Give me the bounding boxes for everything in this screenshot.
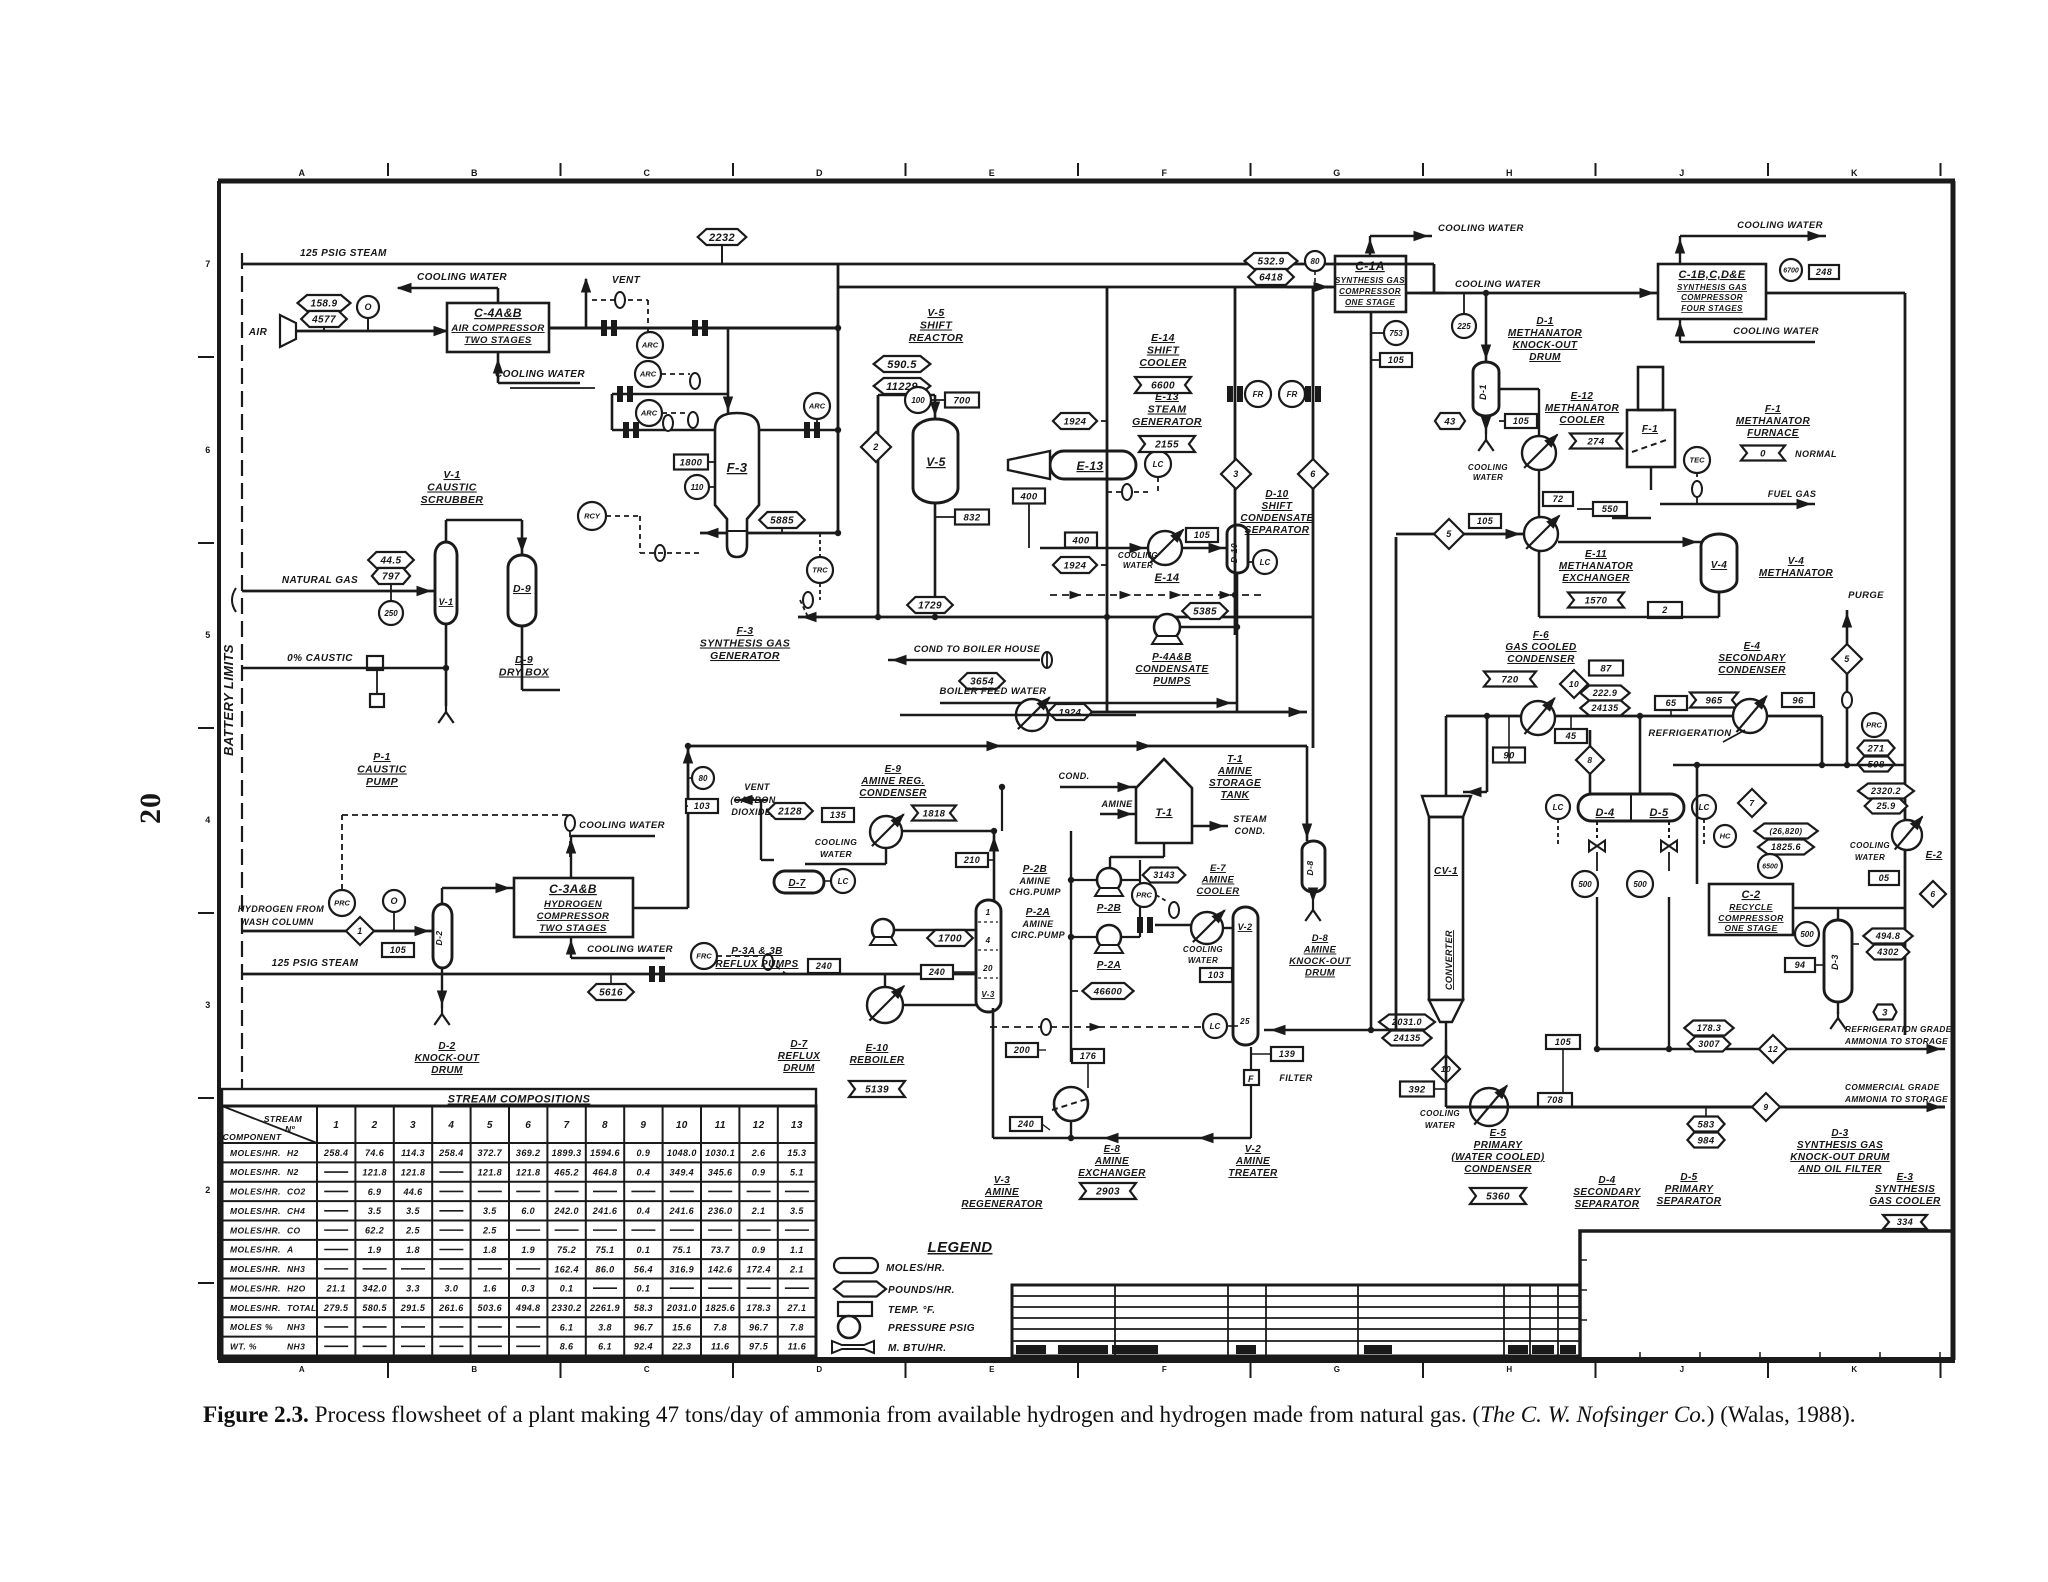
svg-text:550: 550: [1602, 504, 1618, 514]
svg-text:TRC: TRC: [812, 566, 828, 575]
knockout drum D-8: [1302, 841, 1325, 892]
svg-text:797: 797: [382, 572, 400, 583]
instrument FR b: [1279, 381, 1305, 407]
svg-text:STREAM: STREAM: [264, 1114, 303, 1124]
exchanger E-5: [1470, 1088, 1508, 1126]
svg-text:345.6: 345.6: [708, 1167, 733, 1177]
svg-text:P-2A: P-2A: [1097, 960, 1121, 971]
svg-text:4: 4: [447, 1120, 454, 1131]
svg-text:1818: 1818: [923, 808, 946, 819]
svg-text:1924: 1924: [1064, 416, 1087, 427]
scrubber V-1: [435, 542, 457, 624]
svg-text:45: 45: [1565, 731, 1577, 741]
control valve purge: [1842, 692, 1852, 708]
svg-text:F-1: F-1: [1642, 424, 1658, 435]
wire T-1 cond feed: [1060, 786, 1136, 788]
svg-text:COOLING: COOLING: [1118, 551, 1158, 560]
svg-text:(WATER COOLED): (WATER COOLED): [1451, 1152, 1544, 1163]
svg-text:0.9: 0.9: [752, 1167, 766, 1177]
svg-text:NORMAL: NORMAL: [1795, 449, 1837, 459]
controller ARC 2: [635, 361, 661, 387]
svg-text:4302: 4302: [1876, 947, 1899, 957]
svg-text:3.3: 3.3: [406, 1284, 420, 1294]
svg-text:3: 3: [205, 1000, 210, 1010]
compressor C-4A&B: [447, 303, 549, 352]
svg-text:5: 5: [1446, 529, 1452, 539]
svg-text:COMPRESSOR: COMPRESSOR: [1339, 287, 1401, 296]
svg-text:11.6: 11.6: [788, 1342, 807, 1352]
svg-text:STORAGE: STORAGE: [1209, 778, 1261, 789]
svg-text:1.1: 1.1: [790, 1245, 804, 1255]
reflux pump: [872, 919, 894, 941]
flag 583 984: [1687, 1117, 1724, 1132]
wire E-9 loop: [760, 800, 762, 860]
pump P-2B: [1097, 868, 1121, 892]
svg-text:REFRIGERATION GRADE: REFRIGERATION GRADE: [1845, 1025, 1952, 1034]
wire D-10 bottom: [1236, 573, 1239, 712]
flag 2031.0: [1379, 1015, 1435, 1030]
instrument 225: [1452, 314, 1476, 338]
svg-text:MOLES/HR.: MOLES/HR.: [230, 1167, 281, 1177]
svg-text:105: 105: [1555, 1037, 1572, 1047]
svg-text:REFLUX: REFLUX: [778, 1051, 821, 1062]
svg-text:21.1: 21.1: [326, 1284, 346, 1294]
border frame: [218, 179, 1955, 184]
svg-text:SEPARATOR: SEPARATOR: [1575, 1199, 1640, 1210]
svg-text:E-12: E-12: [1571, 391, 1594, 402]
svg-text:62.2: 62.2: [365, 1226, 384, 1236]
svg-text:3: 3: [1233, 469, 1238, 479]
svg-text:WT. %: WT. %: [230, 1342, 257, 1352]
svg-text:158.9: 158.9: [310, 299, 337, 310]
svg-text:STREAM COMPOSITIONS: STREAM COMPOSITIONS: [448, 1094, 591, 1106]
svg-text:D-1: D-1: [1478, 384, 1488, 400]
svg-text:REACTOR: REACTOR: [909, 332, 964, 344]
ammonia product line: [1446, 1106, 1945, 1109]
exchanger E-11 methanator: [1524, 517, 1558, 551]
flag 271 508: [1857, 741, 1894, 756]
svg-text:PURGE: PURGE: [1848, 590, 1884, 601]
svg-text:D-7: D-7: [788, 878, 805, 889]
flag 72: [1543, 492, 1573, 506]
svg-text:SYNTHESIS GAS: SYNTHESIS GAS: [1677, 283, 1747, 292]
svg-text:369.2: 369.2: [516, 1148, 541, 1158]
svg-text:0.4: 0.4: [637, 1167, 651, 1177]
flag 87: [1589, 661, 1623, 676]
svg-text:K: K: [1851, 1365, 1857, 1374]
svg-text:0.4: 0.4: [637, 1206, 651, 1216]
svg-text:MOLES %: MOLES %: [230, 1322, 273, 1332]
loop verticals left: [1370, 312, 1372, 1030]
table header diagonal: [222, 1106, 317, 1143]
controller PRC hydrogen: [329, 890, 355, 916]
svg-text:2155: 2155: [1154, 440, 1179, 451]
svg-text:BATTERY LIMITS: BATTERY LIMITS: [221, 644, 236, 756]
svg-text:MOLES/HR.: MOLES/HR.: [230, 1206, 281, 1216]
treater V-2: [1233, 907, 1258, 1045]
svg-text:COOLING: COOLING: [815, 837, 857, 847]
svg-text:2.6: 2.6: [751, 1148, 766, 1158]
svg-text:P-2A: P-2A: [1026, 907, 1050, 918]
svg-text:COOLING: COOLING: [1183, 945, 1223, 954]
flag 200: [1006, 1043, 1038, 1057]
svg-text:NH3: NH3: [287, 1322, 305, 1332]
svg-text:VENT: VENT: [612, 275, 641, 286]
svg-text:METHANATOR: METHANATOR: [1559, 561, 1634, 572]
svg-text:103: 103: [694, 801, 710, 811]
instrument TEC: [1684, 447, 1710, 473]
svg-text:1800: 1800: [680, 457, 703, 468]
svg-text:24135: 24135: [1392, 1033, 1421, 1043]
dashed condensate header: [1050, 594, 1265, 596]
table grid: [222, 1106, 816, 1356]
svg-text:REFRIGERATION: REFRIGERATION: [1648, 728, 1732, 739]
svg-text:SHIFT: SHIFT: [1262, 501, 1293, 512]
svg-text:SYNTHESIS GAS: SYNTHESIS GAS: [1797, 1140, 1883, 1151]
compressor C-1A: [1335, 256, 1406, 312]
controller ARC 1: [637, 332, 663, 358]
condensate pump P-4A&B: [1154, 614, 1180, 640]
instrument 6700: [1780, 259, 1802, 281]
exchanger E-7: [1191, 912, 1223, 944]
svg-text:SCRUBBER: SCRUBBER: [421, 494, 484, 506]
wire recycle loop: [1696, 765, 1699, 884]
svg-text:WATER: WATER: [1123, 561, 1153, 570]
svg-text:1924: 1924: [1064, 560, 1087, 571]
svg-text:KNOCK-OUT: KNOCK-OUT: [415, 1053, 480, 1064]
cooling water out top: [497, 288, 500, 303]
svg-text:6418: 6418: [1259, 273, 1283, 284]
svg-text:C-3A&B: C-3A&B: [549, 882, 597, 896]
svg-text:105: 105: [1194, 530, 1211, 540]
svg-text:580.5: 580.5: [362, 1303, 387, 1313]
svg-text:334: 334: [1897, 1217, 1913, 1227]
svg-text:MOLES/HR.: MOLES/HR.: [230, 1245, 281, 1255]
svg-text:EXCHANGER: EXCHANGER: [1562, 573, 1630, 584]
svg-text:NH3: NH3: [287, 1342, 305, 1352]
svg-text:162.4: 162.4: [554, 1264, 579, 1274]
svg-text:GENERATOR: GENERATOR: [1132, 416, 1202, 428]
flag 965: [1690, 693, 1738, 708]
svg-text:ARC: ARC: [641, 341, 659, 350]
exchanger E-8: [1054, 1087, 1088, 1121]
svg-text:274: 274: [1586, 436, 1604, 447]
svg-text:125 PSIG STEAM: 125 PSIG STEAM: [272, 958, 359, 969]
svg-text:0: 0: [1760, 448, 1766, 459]
svg-text:A: A: [299, 1365, 305, 1374]
steam drum E-13: [1050, 451, 1136, 479]
svg-text:DRUM: DRUM: [1305, 968, 1336, 979]
flag 90: [1493, 748, 1525, 763]
svg-text:2: 2: [205, 1185, 210, 1195]
svg-text:E-8: E-8: [1104, 1144, 1121, 1155]
controller FRC steam: [691, 943, 717, 969]
legend mbtu symbol: [832, 1341, 874, 1353]
svg-text:5: 5: [205, 630, 210, 640]
svg-text:80: 80: [699, 774, 708, 783]
svg-text:SYNTHESIS GAS: SYNTHESIS GAS: [1335, 276, 1405, 285]
svg-text:9: 9: [1763, 1102, 1768, 1112]
svg-text:261.6: 261.6: [438, 1303, 464, 1313]
svg-text:92.4: 92.4: [634, 1342, 653, 1352]
instrument LC V-2: [1203, 1014, 1227, 1038]
separator D-10: [1227, 525, 1248, 573]
legend moles/hr symbol: [834, 1258, 878, 1273]
svg-text:392: 392: [1408, 1084, 1425, 1095]
svg-text:3007: 3007: [1698, 1039, 1720, 1049]
svg-text:D: D: [816, 1365, 822, 1374]
svg-text:1700: 1700: [938, 934, 962, 945]
svg-text:D-4: D-4: [1596, 807, 1615, 819]
wire to E-14: [1040, 547, 1148, 550]
svg-text:250: 250: [383, 609, 398, 618]
wire E-14 to D-10: [1182, 547, 1227, 550]
svg-text:6700: 6700: [1783, 268, 1799, 275]
svg-text:D-4: D-4: [1598, 1175, 1615, 1186]
converter CV-1: [1422, 796, 1471, 817]
svg-text:AMINE: AMINE: [984, 1187, 1019, 1198]
svg-text:105: 105: [390, 945, 407, 955]
svg-text:T-1: T-1: [1227, 754, 1243, 765]
controller TRC F-3: [807, 557, 833, 583]
svg-text:SECONDARY: SECONDARY: [1573, 1187, 1641, 1198]
svg-text:D-8: D-8: [1312, 933, 1329, 944]
title strip dark entries: [1016, 1345, 1046, 1354]
svg-text:C: C: [644, 1365, 650, 1374]
instrument LC E-13: [1145, 451, 1171, 477]
svg-text:G: G: [1333, 168, 1340, 178]
svg-text:COND.: COND.: [1059, 771, 1090, 781]
svg-text:DRY BOX: DRY BOX: [499, 667, 550, 679]
flag 1818: [912, 806, 956, 821]
flag 590.5: [874, 356, 931, 372]
svg-text:500: 500: [1800, 930, 1814, 939]
svg-text:75.1: 75.1: [595, 1245, 614, 1255]
svg-text:CIRC.PUMP: CIRC.PUMP: [1011, 930, 1066, 940]
svg-text:15.6: 15.6: [672, 1322, 692, 1332]
svg-text:13: 13: [791, 1120, 803, 1131]
svg-text:1.8: 1.8: [406, 1245, 420, 1255]
svg-text:43: 43: [1443, 416, 1456, 427]
svg-text:CONDENSER: CONDENSER: [1507, 654, 1575, 665]
instrument 110: [685, 475, 709, 499]
svg-text:LEGEND: LEGEND: [928, 1239, 993, 1256]
svg-text:COOLING WATER: COOLING WATER: [1438, 223, 1524, 234]
svg-text:0.9: 0.9: [637, 1148, 651, 1158]
flag 103 a: [686, 799, 718, 813]
instrument O: [357, 296, 379, 318]
svg-text:C-4A&B: C-4A&B: [474, 306, 522, 320]
svg-text:CONDENSATE: CONDENSATE: [1135, 664, 1208, 675]
flag 400 a: [1013, 489, 1045, 504]
svg-text:COMPRESSOR: COMPRESSOR: [1718, 913, 1784, 923]
svg-text:349.4: 349.4: [670, 1167, 695, 1177]
svg-text:2320.2: 2320.2: [1870, 786, 1901, 796]
svg-text:FUEL GAS: FUEL GAS: [1768, 489, 1817, 499]
svg-text:494.8: 494.8: [1875, 931, 1901, 941]
svg-text:464.8: 464.8: [592, 1167, 618, 1177]
svg-text:T-1: T-1: [1155, 807, 1172, 819]
svg-text:15.3: 15.3: [787, 1148, 806, 1158]
svg-text:210: 210: [963, 855, 980, 865]
svg-text:6.1: 6.1: [560, 1322, 574, 1332]
battery limits dashed line: [241, 253, 243, 665]
svg-text:F: F: [1248, 1074, 1254, 1084]
wire drops to separators: [1445, 716, 1448, 796]
svg-text:D-9: D-9: [513, 583, 531, 595]
svg-text:172.4: 172.4: [746, 1264, 771, 1274]
svg-text:PUMP: PUMP: [366, 776, 399, 788]
svg-text:CO2: CO2: [287, 1187, 306, 1197]
svg-text:(26,820): (26,820): [1770, 827, 1803, 836]
svg-text:V-4: V-4: [1788, 556, 1804, 567]
svg-text:J: J: [1679, 168, 1684, 178]
svg-text:D-10: D-10: [1265, 489, 1288, 500]
svg-text:WATER: WATER: [1188, 956, 1218, 965]
svg-text:KNOCK-OUT: KNOCK-OUT: [1289, 956, 1351, 967]
flag 26820: [1754, 824, 1817, 839]
svg-text:5: 5: [1844, 654, 1850, 664]
svg-text:TWO STAGES: TWO STAGES: [539, 923, 606, 934]
flag 158.9: [298, 295, 351, 311]
svg-text:6600: 6600: [1151, 381, 1175, 392]
svg-text:AMINE: AMINE: [1094, 1156, 1129, 1167]
wire D-3 top: [1837, 908, 1839, 920]
svg-text:1: 1: [357, 926, 362, 936]
svg-text:291.5: 291.5: [400, 1303, 426, 1313]
svg-text:E-9: E-9: [885, 764, 902, 775]
recycle compressor C-2: [1709, 884, 1793, 935]
svg-text:B: B: [471, 1365, 477, 1374]
flag 240 a: [808, 959, 840, 973]
svg-text:3: 3: [1882, 1007, 1888, 1018]
svg-text:D-3: D-3: [1831, 1128, 1848, 1139]
svg-text:J: J: [1680, 1365, 1685, 1374]
svg-text:ONE STAGE: ONE STAGE: [1724, 923, 1777, 933]
cooling water C-1B bottom: [1679, 319, 1681, 342]
wire F-3 right manifold: [759, 429, 838, 432]
svg-text:H2O: H2O: [287, 1283, 306, 1293]
svg-text:P-4A&B: P-4A&B: [1152, 652, 1192, 663]
flag 1924 b: [1053, 557, 1097, 573]
compressor C-1BCDE: [1658, 264, 1766, 319]
svg-text:7: 7: [205, 259, 210, 269]
legend pounds/hr symbol: [834, 1282, 886, 1297]
flag 5885: [759, 512, 805, 528]
instrument HC: [1714, 825, 1736, 847]
instrument LC D-4: [1546, 795, 1570, 819]
dashed LC loop E-13: [1107, 491, 1150, 493]
furnace F-1 methanator: [1627, 410, 1675, 467]
svg-text:SEPARATOR: SEPARATOR: [1245, 525, 1310, 536]
svg-text:H: H: [1506, 168, 1513, 178]
svg-text:AMINE: AMINE: [1201, 875, 1235, 886]
instrument LC D-10: [1253, 550, 1277, 574]
svg-text:COMMERCIAL GRADE: COMMERCIAL GRADE: [1845, 1083, 1940, 1092]
svg-text:F-3: F-3: [727, 460, 748, 475]
instrument 80 a: [1305, 251, 1325, 271]
wire V-2 to synthesis loop: [1264, 1029, 1396, 1032]
wire V-1 bottom: [445, 624, 448, 668]
svg-text:CV-1: CV-1: [1434, 866, 1458, 877]
svg-text:3.8: 3.8: [598, 1322, 612, 1332]
svg-text:753: 753: [1389, 329, 1403, 338]
svg-text:105: 105: [1388, 355, 1405, 365]
svg-text:SECONDARY: SECONDARY: [1718, 653, 1786, 664]
svg-text:27.1: 27.1: [786, 1303, 806, 1313]
flag 392: [1400, 1082, 1434, 1097]
title strip grid: [1012, 1285, 1580, 1356]
wire steam drop to compressor row: [1433, 264, 1436, 293]
svg-text:STEAM: STEAM: [1233, 814, 1267, 824]
svg-text:1825.6: 1825.6: [1771, 842, 1802, 852]
svg-text:SHIFT: SHIFT: [1147, 345, 1181, 357]
flag 176: [1072, 1049, 1104, 1063]
svg-text:700: 700: [953, 395, 970, 406]
svg-text:F: F: [1162, 168, 1168, 178]
svg-text:AMMONIA TO STORAGE: AMMONIA TO STORAGE: [1844, 1037, 1948, 1046]
svg-text:94: 94: [1795, 960, 1806, 970]
wire pumps manifold: [1071, 879, 1097, 881]
svg-text:316.9: 316.9: [670, 1264, 695, 1274]
diamond 2: [861, 432, 891, 462]
svg-text:P-2B: P-2B: [1023, 864, 1047, 875]
flag 1729: [907, 597, 953, 613]
svg-text:G: G: [1334, 1365, 1341, 1374]
svg-text:NH3: NH3: [287, 1264, 305, 1274]
svg-text:DRUM: DRUM: [431, 1065, 463, 1076]
svg-text:72: 72: [1553, 494, 1564, 504]
svg-text:2330.2: 2330.2: [551, 1303, 582, 1313]
cooling water C-3 top: [570, 836, 572, 878]
svg-text:F: F: [1162, 1365, 1167, 1374]
flag 3: [1873, 1005, 1896, 1020]
svg-text:PRC: PRC: [1866, 721, 1882, 730]
instrument 500 b: [1627, 871, 1653, 897]
diamond 10 a: [1560, 670, 1588, 698]
svg-text:AMINE: AMINE: [1235, 1156, 1270, 1167]
flag 45 a: [1555, 729, 1587, 743]
instrument FR a: [1245, 381, 1271, 407]
svg-text:532.9: 532.9: [1257, 257, 1284, 268]
svg-text:5: 5: [487, 1120, 493, 1131]
flag 2320.2: [1858, 784, 1914, 799]
svg-text:PRC: PRC: [1136, 891, 1152, 900]
diamond 8: [1576, 746, 1604, 774]
svg-text:121.8: 121.8: [516, 1167, 541, 1177]
svg-text:0.1: 0.1: [637, 1284, 651, 1294]
controller ARC right: [804, 393, 830, 419]
svg-text:25.9: 25.9: [1875, 801, 1895, 811]
diamond 3: [1221, 459, 1251, 489]
svg-text:121.8: 121.8: [478, 1167, 503, 1177]
svg-text:75.2: 75.2: [557, 1245, 576, 1255]
svg-text:242.0: 242.0: [553, 1206, 579, 1216]
svg-text:METHANATOR: METHANATOR: [1759, 568, 1834, 579]
svg-text:COOLING WATER: COOLING WATER: [495, 369, 585, 380]
svg-text:240: 240: [815, 961, 832, 971]
svg-text:V-5: V-5: [926, 455, 945, 469]
svg-text:AMINE: AMINE: [1022, 919, 1055, 929]
cooling water C-1B top: [1679, 236, 1681, 264]
svg-text:22.3: 22.3: [671, 1342, 691, 1352]
title block box: [1580, 1231, 1953, 1360]
diamond 5 b: [1832, 644, 1862, 674]
svg-text:2.5: 2.5: [482, 1226, 497, 1236]
svg-text:COOLING: COOLING: [1420, 1109, 1460, 1118]
svg-text:6: 6: [525, 1120, 531, 1131]
wire V-4 bottom loop: [1718, 592, 1721, 617]
